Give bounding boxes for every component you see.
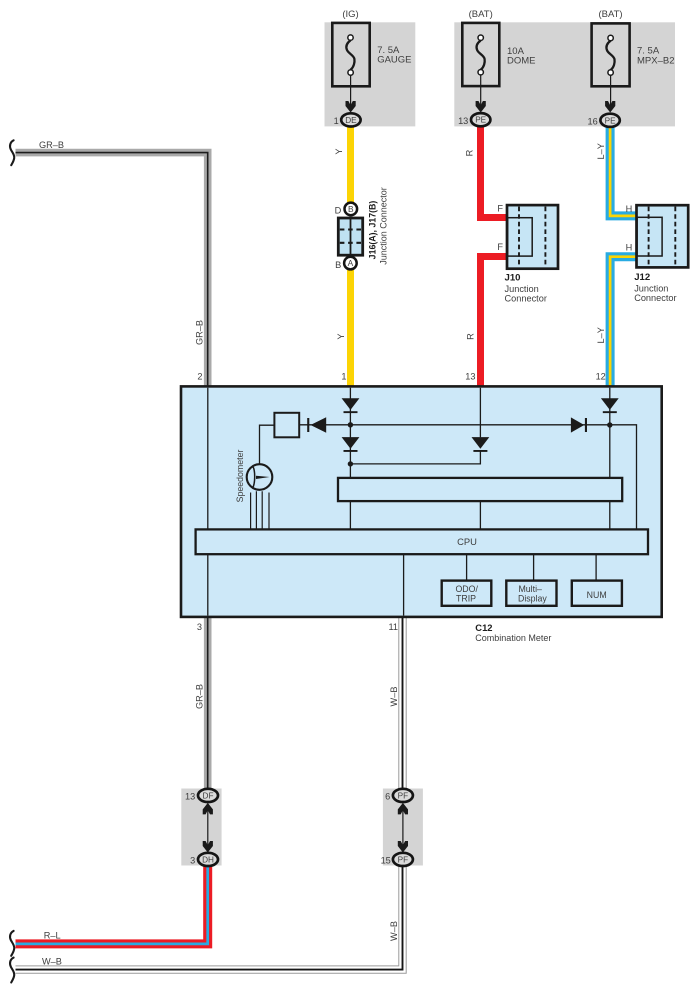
internal anode bus wire bbox=[300, 425, 637, 529]
svg-text:D: D bbox=[335, 206, 342, 216]
svg-text:B: B bbox=[348, 204, 354, 214]
svg-text:R: R bbox=[464, 149, 474, 156]
svg-text:Display: Display bbox=[518, 593, 547, 603]
svg-text:W–B: W–B bbox=[42, 956, 62, 966]
svg-text:Y: Y bbox=[334, 148, 344, 154]
svg-text:DH: DH bbox=[202, 855, 214, 864]
diode D2 (pin 1 lower) bbox=[342, 437, 360, 452]
svg-text:Combination Meter: Combination Meter bbox=[475, 633, 551, 643]
fuse F1 7.5A GAUGE bbox=[332, 23, 369, 107]
diode D3 (pin 13) bbox=[472, 437, 490, 452]
svg-text:TRIP: TRIP bbox=[456, 593, 476, 603]
internal wire pin 2 to CPU bbox=[207, 388, 209, 529]
svg-text:J16(A), J17(B): J16(A), J17(B) bbox=[367, 201, 377, 260]
svg-text:DE: DE bbox=[345, 116, 357, 125]
wire R fuse PE to J10 bbox=[481, 124, 507, 218]
junction connector J10 bbox=[507, 205, 558, 269]
svg-text:CPU: CPU bbox=[457, 536, 477, 547]
svg-text:R–L: R–L bbox=[44, 931, 61, 941]
svg-text:W–B: W–B bbox=[389, 921, 399, 941]
page break symbol (GR-B) bbox=[10, 140, 14, 165]
svg-text:Multi–: Multi– bbox=[518, 584, 542, 594]
page break symbol (W-B) bbox=[10, 958, 14, 983]
arrow PF to PF bbox=[398, 803, 408, 853]
node junction 3 bbox=[607, 422, 612, 427]
wire GR-B pin 3 to DF bbox=[204, 617, 212, 791]
svg-text:1: 1 bbox=[334, 116, 339, 126]
svg-text:12: 12 bbox=[596, 372, 606, 382]
page break symbol (R-L) bbox=[10, 931, 14, 956]
junction connector J16(A) J17(B) bbox=[338, 203, 362, 270]
svg-text:3: 3 bbox=[197, 622, 202, 632]
svg-text:6: 6 bbox=[385, 791, 390, 801]
CPU block bbox=[196, 529, 648, 554]
internal wires bar to CPU bbox=[350, 502, 609, 529]
internal wire pin 13 branch bbox=[350, 388, 480, 464]
svg-text:Junction: Junction bbox=[505, 284, 539, 294]
arrow fuse F1 output bbox=[346, 101, 356, 113]
Multi-Display block bbox=[506, 581, 556, 606]
svg-text:Junction Connector: Junction Connector bbox=[378, 187, 388, 265]
connector PF pin 6 bbox=[393, 789, 413, 802]
wire W-B from PF 15 to page break bbox=[16, 865, 403, 970]
svg-text:PE: PE bbox=[475, 116, 486, 125]
connector block PF/PF background bbox=[383, 789, 423, 866]
svg-text:(BAT): (BAT) bbox=[469, 9, 493, 20]
display driver bar bbox=[338, 478, 622, 501]
speedometer gauge bbox=[247, 464, 273, 490]
fuse F2 10A DOME bbox=[462, 23, 499, 107]
svg-text:Speedometer: Speedometer bbox=[235, 450, 245, 503]
svg-text:GR–B: GR–B bbox=[39, 140, 64, 150]
node junction 1 bbox=[348, 422, 353, 427]
svg-text:R: R bbox=[465, 333, 475, 340]
arrow fuse F2 output bbox=[476, 101, 486, 113]
svg-text:NUM: NUM bbox=[587, 590, 607, 600]
diode D6 (pointing right) bbox=[571, 417, 587, 432]
svg-text:13: 13 bbox=[185, 791, 195, 801]
svg-text:MPX–B2: MPX–B2 bbox=[637, 56, 675, 67]
svg-text:PE: PE bbox=[605, 116, 616, 125]
arrow fuse F3 output bbox=[605, 101, 615, 113]
internal wire pin 1 to display bar bbox=[349, 388, 351, 478]
connector block DF/DH background bbox=[181, 789, 221, 866]
svg-text:15: 15 bbox=[381, 855, 391, 865]
fuse F3 7.5A MPX-B2 bbox=[592, 23, 630, 107]
svg-text:L–Y: L–Y bbox=[596, 143, 606, 159]
combination meter C12 box bbox=[181, 386, 662, 617]
buffer block bbox=[274, 413, 299, 438]
wire R J10 to pin 13 bbox=[481, 257, 507, 388]
fuse block background (IG) bbox=[325, 22, 416, 126]
wire buffer to speedometer bbox=[260, 425, 275, 463]
node junction 2 bbox=[348, 461, 353, 466]
speedometer output lines bbox=[251, 491, 269, 528]
svg-text:(BAT): (BAT) bbox=[598, 9, 622, 20]
NUM display block bbox=[572, 581, 622, 606]
svg-text:PF: PF bbox=[398, 855, 408, 864]
svg-text:13: 13 bbox=[465, 372, 475, 382]
wire L-Y fuse PE to J12 bbox=[610, 124, 636, 216]
connector PF pin 15 bbox=[393, 853, 413, 866]
svg-text:2: 2 bbox=[197, 372, 202, 382]
svg-text:13: 13 bbox=[458, 116, 468, 126]
svg-text:16: 16 bbox=[587, 116, 597, 126]
svg-text:GR–B: GR–B bbox=[194, 684, 204, 709]
svg-text:F: F bbox=[497, 204, 503, 214]
wire L-Y J12 to pin 12 bbox=[610, 257, 636, 387]
svg-text:Connector: Connector bbox=[505, 294, 547, 304]
svg-text:GAUGE: GAUGE bbox=[377, 55, 411, 66]
wire Y fuse DE to J16 bbox=[347, 124, 354, 212]
svg-text:Y: Y bbox=[336, 334, 346, 340]
connector DF pin 13 bbox=[198, 789, 218, 802]
svg-text:DOME: DOME bbox=[507, 56, 536, 67]
connector PE pin 13 bbox=[471, 113, 490, 126]
wire W-B pin 11 to PF bbox=[398, 617, 406, 791]
svg-text:W–B: W–B bbox=[389, 687, 399, 707]
wire Y J16 to pin 1 bbox=[347, 260, 354, 387]
svg-text:H: H bbox=[626, 204, 633, 214]
diode D4 (pin 12) bbox=[601, 398, 619, 413]
svg-text:J12: J12 bbox=[634, 272, 650, 283]
svg-text:J10: J10 bbox=[505, 273, 521, 284]
fuse block background (BAT) bbox=[454, 22, 675, 126]
ODO/TRIP display block bbox=[442, 581, 492, 606]
internal wire pin 12 to display bar bbox=[609, 388, 611, 478]
junction connector J12 bbox=[637, 205, 689, 267]
svg-text:GR–B: GR–B bbox=[194, 320, 204, 345]
wire GR-B from page break to pin 2 bbox=[16, 153, 208, 387]
connector DH pin 3 bbox=[198, 853, 218, 866]
svg-text:DF: DF bbox=[203, 791, 214, 800]
internal wires CPU outputs bbox=[208, 555, 596, 616]
svg-text:C12: C12 bbox=[475, 622, 492, 633]
svg-text:B: B bbox=[335, 260, 341, 270]
svg-text:ODO/: ODO/ bbox=[455, 584, 478, 594]
connector DE pin 1 bbox=[341, 113, 360, 126]
svg-text:Connector: Connector bbox=[634, 293, 676, 303]
diode D5 (to buffer, pointing left) bbox=[307, 417, 326, 433]
svg-text:L–Y: L–Y bbox=[596, 327, 606, 343]
wire R-L from DH to page break bbox=[16, 865, 208, 944]
svg-text:F: F bbox=[497, 242, 503, 252]
svg-text:3: 3 bbox=[190, 855, 195, 865]
arrow DF to DH bbox=[203, 803, 213, 853]
svg-text:A: A bbox=[348, 258, 354, 268]
diode D1 (pin 1 upper) bbox=[342, 398, 360, 413]
svg-text:H: H bbox=[626, 243, 633, 253]
svg-text:(IG): (IG) bbox=[342, 9, 358, 20]
connector PE pin 16 bbox=[600, 114, 619, 127]
svg-text:1: 1 bbox=[341, 372, 346, 382]
svg-text:PF: PF bbox=[398, 791, 408, 800]
svg-text:11: 11 bbox=[388, 622, 398, 632]
